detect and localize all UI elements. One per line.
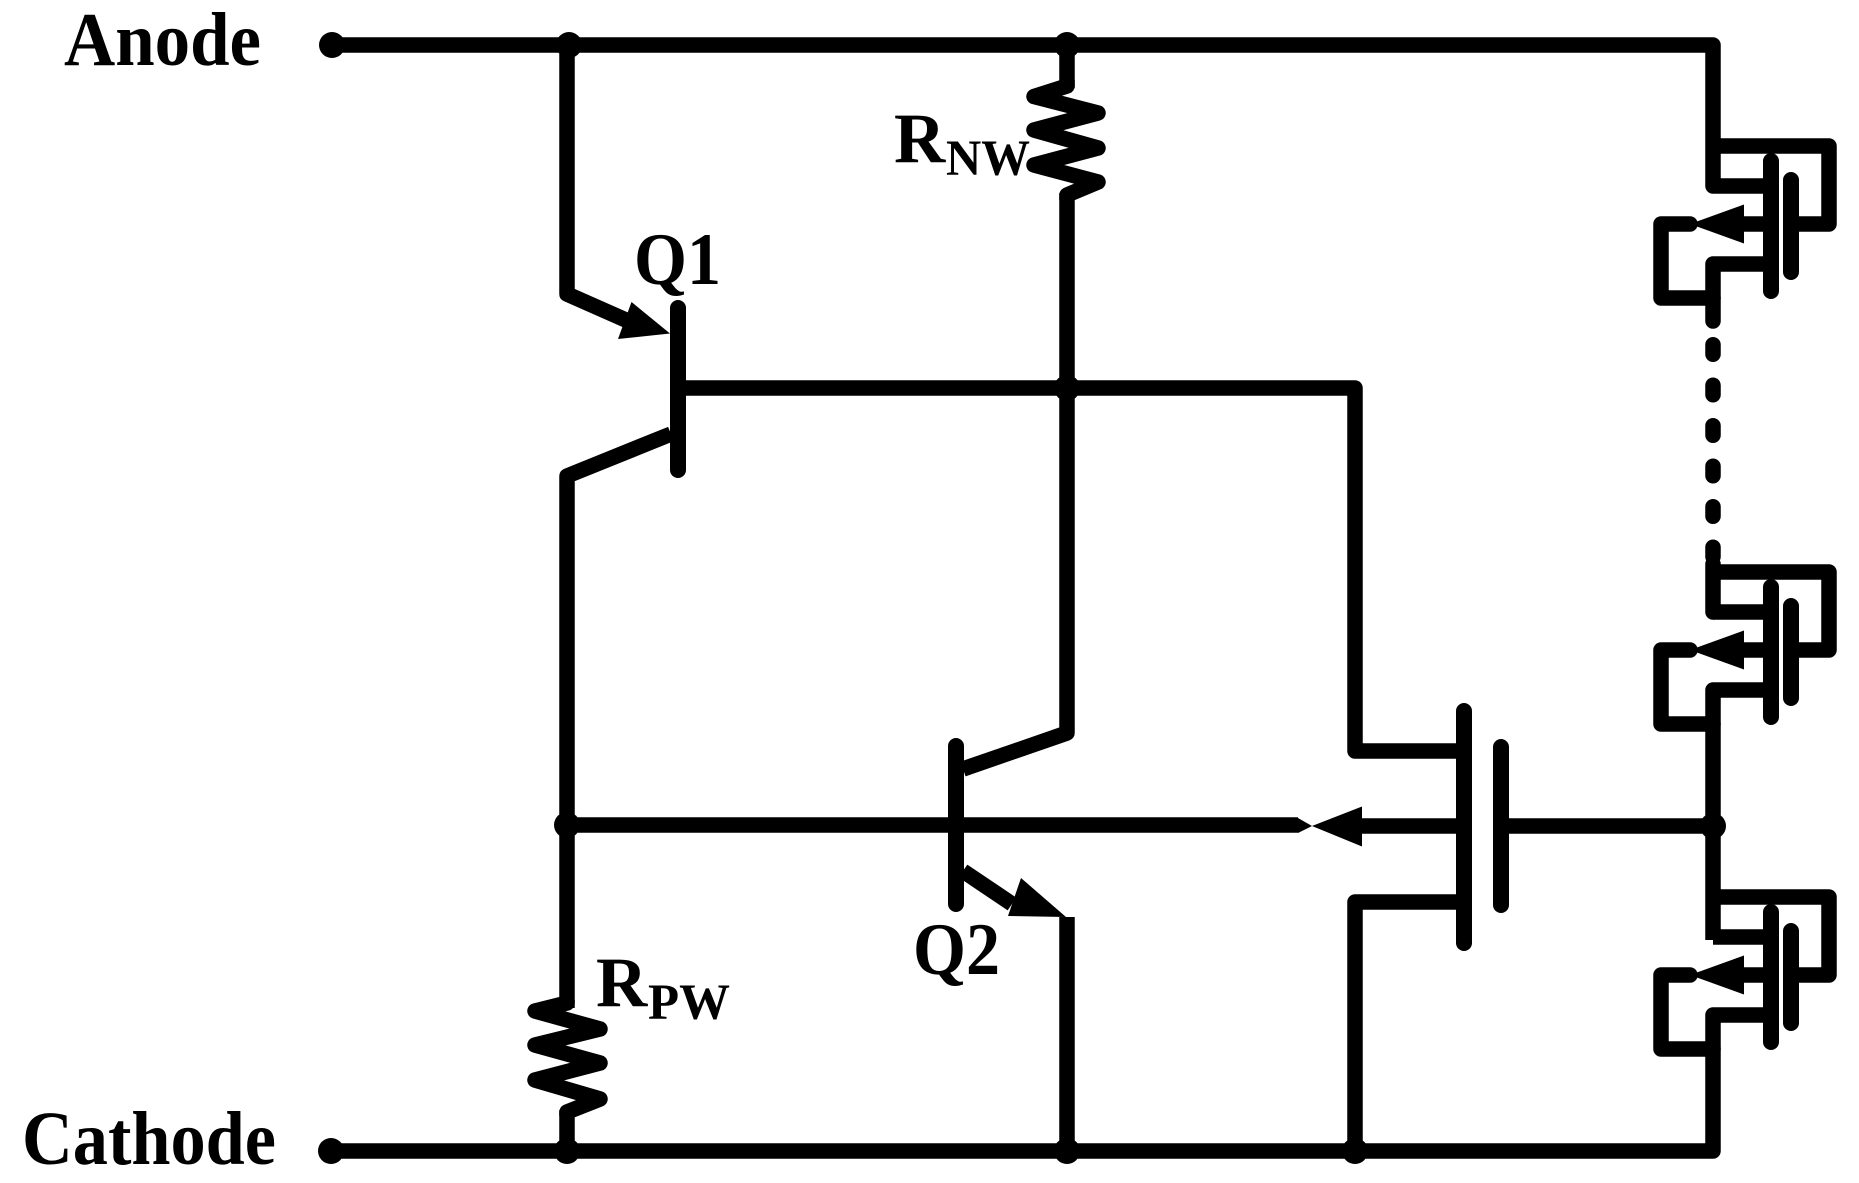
transistor MN gate bar <box>1493 747 1509 905</box>
junction gate net / right rail <box>1700 813 1726 839</box>
label RPW <box>596 944 730 1031</box>
transistor Q1 base bar <box>670 308 686 470</box>
transistor M3 gate bar <box>1783 931 1799 1023</box>
transistor M1 channel bar <box>1763 161 1779 291</box>
transistor MN bulk arrow <box>1312 807 1362 847</box>
transistor M1 (diode-connected PMOS) gate loop <box>1713 146 1829 224</box>
wire M1 bulk to channel <box>1744 216 1771 232</box>
wire M2 source stub <box>1713 604 1771 620</box>
svg-text:Q2: Q2 <box>913 909 1000 991</box>
junction at anode / RNW top <box>1054 32 1080 58</box>
transistor Q2 emitter arrow <box>1008 878 1066 917</box>
transistor M3 bulk loop <box>1661 975 1713 1049</box>
transistor Q1 emitter arrow <box>618 302 670 339</box>
transistor Q2 base bar <box>948 746 964 904</box>
wire MN bulk to channel <box>1362 818 1464 834</box>
transistor M3 channel bar <box>1763 912 1779 1042</box>
resistor RPW <box>535 1000 600 1116</box>
svg-text:Anode: Anode <box>64 0 261 82</box>
wire M1 drain stub <box>1713 264 1771 321</box>
transistor Q2 emitter <box>963 871 1012 904</box>
wire M2 entry <box>1705 564 1721 612</box>
transistor M3 (diode-connected PMOS) gate loop <box>1713 897 1829 975</box>
wire Q2 emitter to cathode <box>1059 917 1075 1151</box>
junction cathode / Q2 emitter <box>1054 1138 1080 1164</box>
wire Q1 collector / left rail <box>567 434 671 1008</box>
wire M2 bulk to channel <box>1744 642 1771 658</box>
svg-text:PW: PW <box>648 975 730 1031</box>
wire M3 source stub <box>1713 929 1771 945</box>
wire RNW bottom to Q1 base junction <box>1059 193 1075 388</box>
wire anode junction to RNW top <box>1059 45 1075 88</box>
wire Q2 collector to RNW <box>963 388 1067 769</box>
resistor RNW <box>1034 80 1098 200</box>
transistor M1 gate bar <box>1783 180 1799 272</box>
wire Q2 base / MN bulk line <box>566 817 1298 833</box>
transistor M2 channel bar <box>1763 587 1779 717</box>
transistor M2 (diode-connected PMOS) gate loop <box>1713 572 1829 650</box>
wire MN drain to cathode <box>1355 902 1464 1151</box>
transistor M1 bulk loop <box>1661 224 1713 298</box>
transistor M2 bulk loop <box>1661 650 1713 724</box>
junction Q1 base / RNW bottom <box>1054 375 1080 401</box>
transistor MN channel bar <box>1456 711 1472 943</box>
transistor M1 bulk arrow <box>1690 205 1744 244</box>
wire dashed chain between M1 and M2 <box>1705 345 1721 557</box>
svg-text:R: R <box>894 100 946 178</box>
transistor M2 gate bar <box>1783 606 1799 698</box>
junction at anode / Q1 emitter <box>556 32 582 58</box>
wire MN gate to right rail <box>1501 818 1713 834</box>
wire Q1 base to MN source <box>685 388 1464 751</box>
wire M2 drain down to M3 <box>1713 690 1771 940</box>
label RNW <box>894 100 1030 187</box>
junction cathode / RPW <box>554 1138 580 1164</box>
wire M3 bulk to channel <box>1744 967 1771 983</box>
transistor M3 bulk arrow <box>1690 956 1744 995</box>
svg-text:NW: NW <box>946 131 1030 187</box>
transistor M2 bulk arrow <box>1690 631 1744 670</box>
node Anode terminal dot <box>319 32 345 58</box>
wire RPW bottom to cathode <box>559 1110 575 1151</box>
junction cathode / MN drain <box>1342 1138 1368 1164</box>
transistor Q1 emitter wire <box>567 45 644 328</box>
node Cathode terminal dot <box>318 1138 344 1164</box>
junction Q2 base / left rail <box>554 812 580 838</box>
wire M3 drain and cathode rail <box>331 1015 1771 1151</box>
svg-text:Cathode: Cathode <box>22 1097 276 1181</box>
svg-text:R: R <box>596 944 648 1022</box>
wire anode rail: top horizontal, right drop, PMOS M1 source stub <box>332 45 1771 186</box>
svg-text:Q1: Q1 <box>634 219 721 301</box>
